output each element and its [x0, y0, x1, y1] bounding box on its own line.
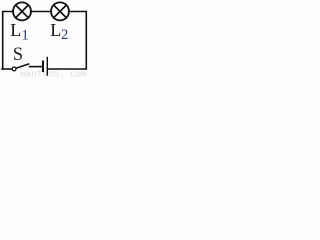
svg-text:1: 1: [22, 27, 29, 43]
svg-text:manfen5. com: manfen5. com: [20, 69, 87, 77]
svg-text:L: L: [50, 20, 61, 40]
svg-text:2: 2: [61, 27, 68, 43]
svg-text:S: S: [13, 45, 23, 65]
svg-text:L: L: [10, 20, 21, 40]
